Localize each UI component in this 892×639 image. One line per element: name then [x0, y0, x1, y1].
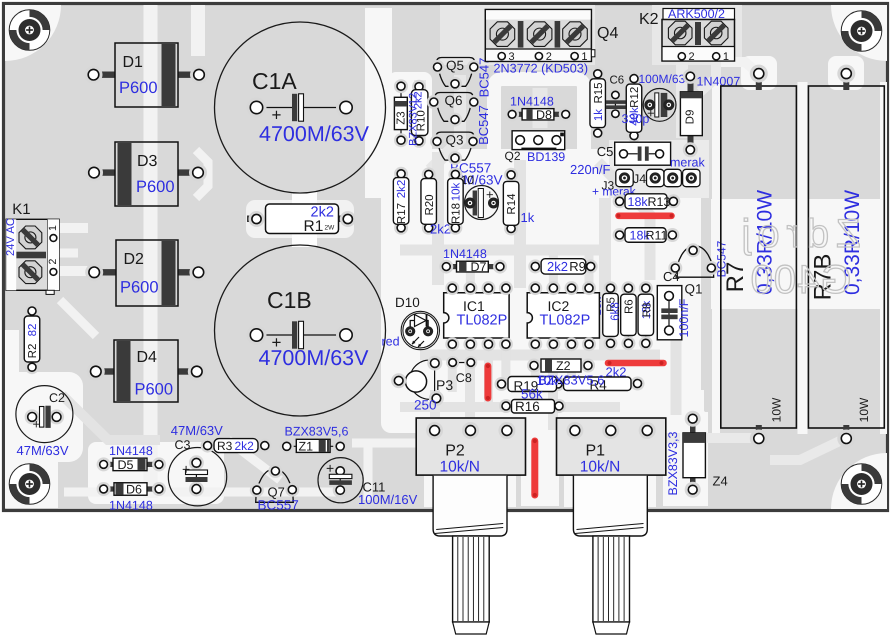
svg-text:C2: C2 — [49, 391, 65, 405]
svg-text:R18: R18 — [451, 203, 463, 224]
wire — [465, 345, 475, 430]
svg-text:D2: D2 — [124, 251, 145, 268]
svg-text:2N3772 (KD503): 2N3772 (KD503) — [494, 62, 589, 76]
diode D1 — [94, 72, 116, 78]
wire — [671, 300, 682, 415]
svg-text:10W: 10W — [770, 397, 784, 422]
svg-text:red: red — [382, 335, 400, 349]
op-amp IC2 pins — [528, 281, 542, 295]
wire — [10, 249, 78, 258]
mounting hole TL — [9, 10, 50, 51]
svg-text:100n/F: 100n/F — [677, 298, 691, 337]
zener diode Z3 — [400, 86, 402, 140]
svg-text:4700M/63V: 4700M/63V — [259, 346, 370, 370]
svg-text:D10: D10 — [395, 295, 420, 310]
op-amp IC1 pins — [445, 281, 459, 295]
wire highlighted — [619, 213, 672, 220]
svg-text:1: 1 — [723, 51, 729, 63]
wire — [548, 345, 558, 430]
svg-text:P600: P600 — [119, 79, 158, 97]
wire — [54, 266, 88, 276]
svg-text:2: 2 — [47, 259, 59, 265]
wire — [381, 149, 701, 433]
svg-text:1k: 1k — [521, 210, 535, 225]
capacitor C2 — [16, 386, 73, 443]
svg-text:10k: 10k — [451, 182, 463, 201]
svg-text:Z1: Z1 — [299, 440, 314, 454]
wire — [5, 5, 61, 61]
capacitor C1B — [215, 245, 386, 416]
wire — [292, 192, 317, 247]
svg-text:D6: D6 — [126, 483, 142, 497]
svg-text:R15: R15 — [593, 82, 605, 103]
svg-text:P600: P600 — [120, 279, 159, 297]
svg-text:2W: 2W — [325, 225, 336, 232]
wire — [196, 150, 208, 198]
svg-text:BZX83V5,6: BZX83V5,6 — [285, 425, 349, 439]
svg-text:R3: R3 — [217, 439, 233, 453]
potentiometer P2 — [416, 418, 525, 475]
svg-text:56k: 56k — [521, 387, 543, 402]
svg-text:Z4: Z4 — [713, 474, 728, 489]
svg-text:D3: D3 — [137, 153, 158, 170]
resistor R17 — [400, 174, 402, 228]
diode D6 — [104, 488, 159, 490]
resistor R9 — [535, 265, 590, 267]
wire — [246, 200, 354, 238]
svg-text:2k2: 2k2 — [430, 222, 451, 237]
svg-text:C5: C5 — [597, 144, 614, 159]
svg-text:18k: 18k — [628, 195, 649, 209]
resistor R20 — [428, 174, 430, 227]
wire — [831, 453, 887, 509]
svg-text:BC547: BC547 — [477, 58, 492, 98]
resistor R1 — [247, 216, 259, 223]
svg-text:R6: R6 — [624, 299, 636, 314]
power resistor R7B — [808, 86, 884, 428]
svg-text:24V AC: 24V AC — [5, 218, 17, 256]
zener diode Z2 — [534, 365, 588, 367]
wire — [400, 402, 620, 412]
svg-text:D9: D9 — [685, 110, 697, 125]
svg-text:1N4148: 1N4148 — [109, 444, 153, 458]
wire — [680, 408, 707, 502]
wire — [432, 152, 444, 285]
svg-text:R12: R12 — [629, 87, 641, 108]
svg-text:6k8: 6k8 — [610, 302, 622, 321]
wire — [400, 245, 600, 256]
wire — [448, 344, 457, 392]
svg-text:R11: R11 — [646, 229, 668, 243]
wire — [501, 344, 510, 384]
wire — [466, 252, 475, 288]
capacitor C8 — [453, 362, 471, 364]
svg-text:P600: P600 — [136, 178, 175, 196]
wire — [549, 252, 558, 288]
transistor Q1 — [676, 246, 714, 277]
wire — [598, 162, 650, 280]
resistor R3 — [208, 445, 265, 447]
wire — [364, 443, 373, 500]
wire highlighted — [484, 366, 491, 398]
resistor R14 — [510, 175, 512, 229]
svg-text:BC547: BC547 — [476, 105, 491, 145]
capacitor C11 — [318, 458, 363, 503]
transistor Q3 — [436, 132, 474, 160]
resistor R19 — [502, 383, 559, 385]
diode D4 — [96, 368, 114, 374]
svg-text:+: + — [33, 417, 41, 432]
trimmer P3 — [410, 360, 435, 399]
wire — [228, 440, 280, 480]
svg-text:R20: R20 — [424, 194, 436, 215]
wire — [585, 252, 594, 288]
diode D7 — [446, 266, 500, 268]
svg-text:P600: P600 — [135, 381, 174, 399]
diode D5 — [104, 463, 159, 465]
svg-text:C1A: C1A — [252, 68, 297, 94]
svg-text:82: 82 — [27, 324, 39, 337]
label ARK500/2 — [663, 9, 735, 20]
wire — [660, 433, 759, 443]
wire — [568, 30, 583, 70]
resistor R10 — [418, 87, 420, 141]
capacitor C6 — [614, 95, 616, 114]
transistor Q5 — [437, 58, 475, 87]
svg-text:1N4148: 1N4148 — [443, 247, 487, 261]
svg-text:Z3: Z3 — [396, 111, 408, 124]
mounting hole BR — [841, 464, 882, 505]
svg-text:Z2: Z2 — [556, 359, 571, 373]
svg-text:Zdroj: Zdroj — [734, 212, 860, 256]
svg-text:250: 250 — [414, 398, 437, 413]
wire — [533, 88, 548, 128]
wire highlighted — [531, 441, 538, 495]
wire — [60, 300, 96, 336]
svg-text:1: 1 — [47, 225, 59, 231]
wire — [352, 439, 424, 448]
wire — [62, 395, 160, 440]
svg-text:Q5: Q5 — [446, 58, 464, 73]
zener diode Z4 — [690, 423, 696, 435]
svg-text:BZX83V3,3: BZX83V3,3 — [666, 431, 680, 495]
svg-text:C6: C6 — [610, 75, 625, 87]
mounting hole TR — [841, 11, 882, 52]
wire — [191, 5, 205, 56]
resistor R8 — [645, 288, 647, 343]
svg-text:2k2: 2k2 — [547, 259, 568, 274]
diode D3 — [94, 169, 115, 175]
svg-text:1N4148: 1N4148 — [510, 95, 554, 109]
svg-text:R7: R7 — [722, 262, 749, 293]
wire — [64, 488, 340, 497]
svg-text:C8: C8 — [456, 371, 472, 385]
connector K2 — [662, 20, 735, 62]
svg-text:10k/N: 10k/N — [440, 459, 481, 476]
resistor R5 — [610, 288, 612, 343]
wire — [484, 344, 493, 408]
svg-text:R9: R9 — [569, 259, 586, 274]
resistor R6 — [627, 288, 629, 343]
svg-text:2k2: 2k2 — [413, 91, 425, 109]
resistor R13 — [620, 200, 674, 202]
connector Q4 — [485, 10, 591, 62]
svg-text:1N4148: 1N4148 — [109, 499, 153, 513]
connector K1 — [6, 219, 59, 290]
wire — [514, 160, 526, 288]
svg-text:10k/N: 10k/N — [580, 459, 621, 476]
svg-text:Q1: Q1 — [685, 282, 703, 297]
diode D2 — [94, 269, 116, 275]
capacitor C1A — [215, 22, 386, 193]
svg-text:47M/63V: 47M/63V — [171, 423, 223, 438]
wire — [430, 75, 460, 170]
svg-text:merak: merak — [670, 156, 705, 170]
wire — [831, 5, 887, 61]
resistor R15 — [597, 74, 599, 133]
svg-text:Q2: Q2 — [505, 149, 521, 163]
wire — [496, 30, 511, 70]
svg-text:4700M/63V: 4700M/63V — [259, 122, 370, 146]
svg-text:C1B: C1B — [267, 287, 312, 313]
capacitor C5 — [615, 142, 671, 165]
resistor R2 — [31, 311, 33, 367]
wire — [716, 62, 759, 74]
svg-text:D5: D5 — [118, 458, 134, 472]
svg-text:TL082P: TL082P — [457, 313, 508, 329]
svg-text:D4: D4 — [137, 349, 158, 366]
svg-text:P2: P2 — [445, 443, 465, 460]
svg-text:P3: P3 — [436, 377, 453, 393]
wire — [533, 30, 548, 70]
wire — [414, 80, 426, 140]
mounting hole BL — [9, 464, 50, 505]
resistor R4 — [558, 383, 638, 385]
potentiometer P1 — [557, 418, 666, 475]
wire — [567, 344, 576, 384]
svg-text:47M/63V: 47M/63V — [17, 443, 69, 458]
svg-text:D1: D1 — [123, 54, 144, 71]
svg-text:R1: R1 — [304, 218, 324, 235]
wire — [531, 344, 540, 406]
svg-text:Q4: Q4 — [597, 25, 618, 42]
svg-text:+: + — [182, 461, 190, 477]
svg-text:Q6: Q6 — [445, 93, 463, 108]
wire — [420, 350, 660, 361]
svg-text:R17: R17 — [396, 203, 408, 224]
svg-text:C3: C3 — [175, 438, 191, 452]
wire — [770, 438, 846, 460]
svg-text:C4: C4 — [663, 269, 680, 284]
transistor Q2 — [512, 131, 565, 150]
op-amp IC2 — [527, 293, 599, 338]
capacitor C3 — [168, 448, 226, 506]
op-amp IC1 — [444, 293, 509, 338]
resistor R11 — [620, 234, 673, 236]
wire — [144, 5, 158, 498]
wire — [599, 198, 611, 352]
wire — [700, 62, 716, 92]
svg-text:+: + — [326, 460, 334, 476]
svg-text:G400: G400 — [750, 258, 852, 302]
svg-text:R8: R8 — [642, 303, 654, 318]
wire highlighted — [608, 360, 664, 367]
wire — [54, 223, 88, 233]
wire — [430, 390, 440, 470]
wire — [676, 62, 688, 138]
LED D10 — [401, 311, 439, 349]
capacitor C4 — [657, 286, 682, 340]
zener diode Z1 — [287, 445, 341, 447]
svg-text:10W: 10W — [857, 397, 871, 422]
svg-text:220n/F: 220n/F — [570, 162, 611, 177]
svg-text:R2: R2 — [27, 344, 39, 359]
connector J4 — [616, 169, 633, 186]
diode D9 — [688, 80, 694, 94]
svg-text:100M/16V: 100M/16V — [358, 492, 418, 507]
power resistor R7 — [721, 86, 797, 428]
svg-text:2: 2 — [689, 51, 695, 63]
resistor R12 — [633, 79, 635, 136]
transistor Q6 — [435, 93, 473, 122]
svg-text:TL082P: TL082P — [540, 313, 591, 329]
capacitor C9 — [643, 89, 676, 122]
svg-text:K2: K2 — [639, 11, 659, 28]
svg-text:K1: K1 — [12, 201, 30, 218]
transistor Q7 — [256, 469, 294, 502]
resistor R16 — [506, 405, 559, 407]
svg-text:BC557: BC557 — [258, 498, 299, 513]
svg-text:1k: 1k — [593, 109, 605, 121]
svg-text:D8: D8 — [536, 108, 552, 122]
svg-text:2k2: 2k2 — [235, 439, 255, 453]
svg-text:Q3: Q3 — [446, 133, 464, 148]
svg-text:BD139: BD139 — [527, 150, 565, 164]
svg-text:R13: R13 — [648, 195, 671, 209]
capacitor C10 — [465, 186, 499, 220]
svg-text:R14: R14 — [506, 193, 518, 215]
svg-text:D7: D7 — [471, 260, 487, 274]
diode D8 — [512, 113, 566, 115]
svg-text:P1: P1 — [586, 443, 606, 460]
svg-text:2k2: 2k2 — [396, 180, 408, 199]
resistor R18 — [454, 174, 456, 227]
svg-text:330p: 330p — [622, 112, 650, 126]
